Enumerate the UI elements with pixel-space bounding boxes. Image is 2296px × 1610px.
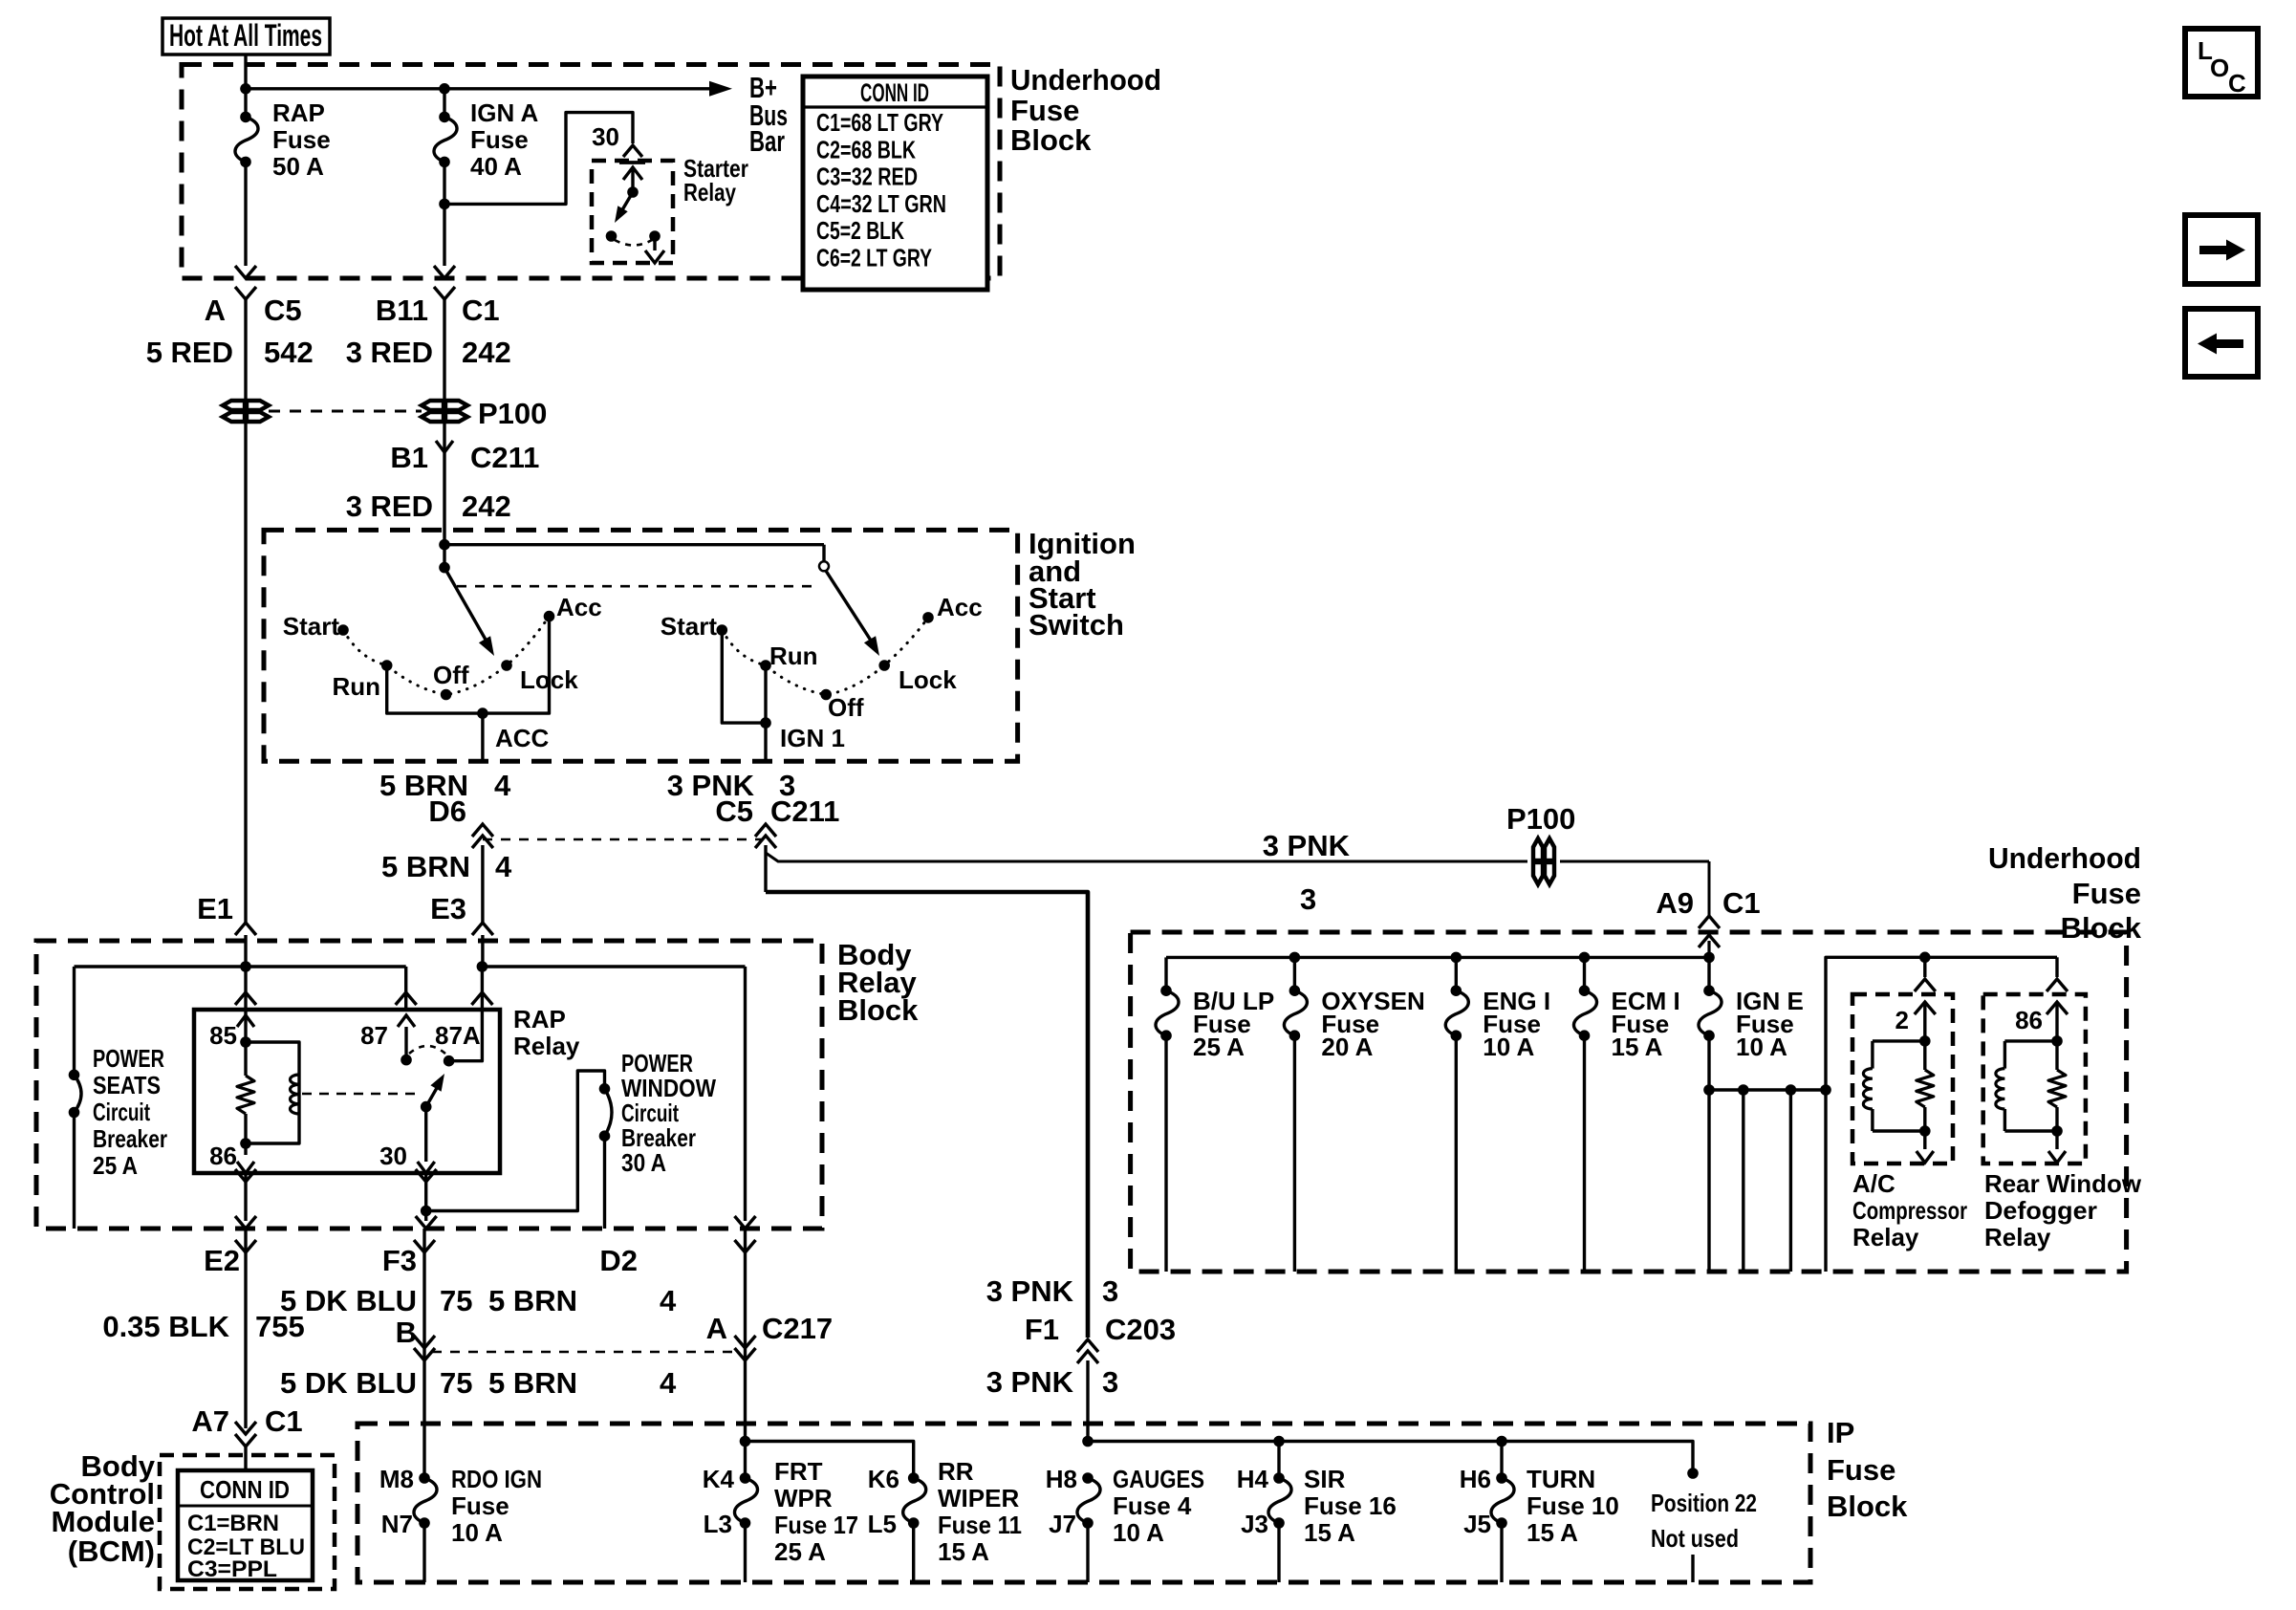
svg-text:C2=68 BLK: C2=68 BLK — [816, 135, 916, 163]
svg-text:SIR: SIR — [1304, 1465, 1346, 1493]
svg-text:C1=BRN: C1=BRN — [187, 1511, 279, 1536]
svg-text:5 DK BLU: 5 DK BLU — [280, 1284, 417, 1317]
svg-text:O: O — [2210, 54, 2229, 82]
svg-text:3 RED: 3 RED — [346, 336, 433, 369]
svg-text:J3: J3 — [1241, 1510, 1268, 1538]
svg-text:25 A: 25 A — [93, 1151, 138, 1180]
svg-text:Fuse 11: Fuse 11 — [938, 1511, 1022, 1539]
svg-text:C: C — [2228, 69, 2246, 98]
svg-text:Fuse: Fuse — [2072, 877, 2141, 910]
svg-text:P100: P100 — [478, 397, 547, 430]
svg-text:15 A: 15 A — [1304, 1518, 1355, 1547]
svg-text:E1: E1 — [197, 892, 233, 925]
svg-text:Fuse 16: Fuse 16 — [1304, 1491, 1397, 1520]
svg-text:Fuse 17: Fuse 17 — [774, 1511, 858, 1539]
svg-text:F3: F3 — [382, 1244, 417, 1277]
svg-text:10 A: 10 A — [1113, 1518, 1164, 1547]
svg-text:Off: Off — [433, 661, 469, 689]
svg-text:C6=2 LT GRY: C6=2 LT GRY — [816, 244, 932, 272]
svg-text:75: 75 — [440, 1284, 472, 1317]
svg-text:B1: B1 — [390, 441, 428, 474]
svg-text:Defogger: Defogger — [1984, 1196, 2097, 1225]
svg-text:542: 542 — [264, 336, 314, 369]
svg-text:Fuse 10: Fuse 10 — [1527, 1491, 1619, 1520]
svg-text:GAUGES: GAUGES — [1113, 1465, 1204, 1493]
svg-text:10 A: 10 A — [1483, 1033, 1534, 1061]
svg-text:C211: C211 — [770, 794, 839, 828]
svg-text:3: 3 — [1102, 1274, 1118, 1308]
svg-text:5 BRN: 5 BRN — [488, 1284, 577, 1317]
svg-text:RAP: RAP — [513, 1005, 566, 1033]
svg-text:20 A: 20 A — [1321, 1033, 1373, 1061]
svg-text:POWER: POWER — [93, 1044, 164, 1073]
svg-text:A9: A9 — [1656, 886, 1694, 920]
svg-text:5 BRN: 5 BRN — [381, 850, 470, 883]
svg-text:3 PNK: 3 PNK — [986, 1274, 1074, 1308]
svg-text:E2: E2 — [204, 1244, 240, 1277]
svg-text:FRT: FRT — [774, 1457, 823, 1486]
svg-text:5 DK BLU: 5 DK BLU — [280, 1366, 417, 1400]
svg-text:C5: C5 — [715, 794, 753, 828]
svg-text:IGN 1: IGN 1 — [780, 724, 845, 752]
svg-text:15 A: 15 A — [1612, 1033, 1663, 1061]
svg-text:Relay: Relay — [513, 1032, 580, 1060]
svg-text:C3=32 RED: C3=32 RED — [816, 163, 918, 191]
svg-text:C5=2 BLK: C5=2 BLK — [816, 216, 904, 245]
svg-text:Position 22: Position 22 — [1651, 1489, 1757, 1517]
svg-text:0.35 BLK: 0.35 BLK — [102, 1310, 229, 1343]
svg-text:Fuse: Fuse — [272, 125, 331, 154]
svg-text:Block: Block — [2061, 911, 2142, 945]
svg-text:C1: C1 — [1722, 886, 1761, 920]
svg-text:87: 87 — [360, 1021, 388, 1050]
svg-text:15 A: 15 A — [938, 1537, 989, 1566]
svg-text:C217: C217 — [762, 1312, 833, 1345]
svg-text:Block: Block — [837, 993, 919, 1027]
svg-text:Block: Block — [1010, 123, 1092, 157]
svg-text:H4: H4 — [1237, 1465, 1269, 1493]
svg-text:A: A — [706, 1312, 727, 1345]
svg-text:87A: 87A — [435, 1021, 481, 1050]
svg-text:CONN ID: CONN ID — [200, 1475, 290, 1504]
svg-text:30: 30 — [592, 122, 619, 151]
svg-text:25 A: 25 A — [1193, 1033, 1245, 1061]
svg-text:(BCM): (BCM) — [68, 1534, 155, 1568]
svg-text:Bar: Bar — [749, 124, 785, 158]
svg-text:10 A: 10 A — [1736, 1033, 1787, 1061]
svg-text:86: 86 — [209, 1142, 237, 1170]
svg-text:SEATS: SEATS — [93, 1071, 161, 1099]
svg-text:IGN A: IGN A — [470, 98, 538, 127]
svg-text:Block: Block — [1827, 1490, 1908, 1523]
svg-text:L3: L3 — [704, 1510, 732, 1538]
svg-text:Start: Start — [661, 612, 718, 641]
svg-text:D2: D2 — [599, 1244, 638, 1277]
svg-text:10 A: 10 A — [451, 1518, 503, 1547]
svg-text:C5: C5 — [264, 294, 302, 327]
svg-text:P100: P100 — [1506, 802, 1575, 836]
svg-text:15 A: 15 A — [1527, 1518, 1578, 1547]
svg-text:D6: D6 — [428, 794, 466, 828]
svg-text:C3=PPL: C3=PPL — [187, 1556, 277, 1582]
svg-text:C1: C1 — [265, 1404, 303, 1438]
svg-text:242: 242 — [462, 336, 511, 369]
svg-text:C4=32 LT GRN: C4=32 LT GRN — [816, 189, 946, 218]
svg-text:J5: J5 — [1463, 1510, 1491, 1538]
svg-text:CONN ID: CONN ID — [860, 78, 929, 107]
svg-text:Fuse 4: Fuse 4 — [1113, 1491, 1192, 1520]
svg-text:3 PNK: 3 PNK — [986, 1365, 1074, 1399]
svg-text:50 A: 50 A — [272, 152, 324, 181]
svg-text:H6: H6 — [1460, 1465, 1491, 1493]
svg-text:K4: K4 — [703, 1465, 735, 1493]
svg-text:Fuse: Fuse — [451, 1491, 509, 1520]
svg-text:C211: C211 — [470, 441, 539, 474]
svg-text:A/C: A/C — [1852, 1169, 1895, 1198]
svg-text:4: 4 — [660, 1284, 677, 1317]
svg-text:C1: C1 — [462, 294, 500, 327]
svg-text:Switch: Switch — [1029, 608, 1124, 642]
svg-text:3: 3 — [1102, 1365, 1118, 1399]
svg-text:RDO IGN: RDO IGN — [451, 1465, 542, 1493]
svg-text:Run: Run — [769, 642, 818, 670]
svg-text:Relay: Relay — [1852, 1223, 1919, 1251]
svg-text:WIPER: WIPER — [938, 1484, 1019, 1512]
svg-text:Module: Module — [52, 1505, 156, 1538]
svg-text:30: 30 — [379, 1142, 407, 1170]
svg-text:ACC: ACC — [495, 724, 550, 752]
svg-text:B: B — [396, 1316, 417, 1349]
svg-text:A: A — [205, 294, 226, 327]
svg-text:IP: IP — [1827, 1416, 1854, 1449]
svg-text:Acc: Acc — [556, 593, 602, 621]
svg-text:Fuse: Fuse — [1827, 1453, 1895, 1487]
svg-text:3 PNK: 3 PNK — [1263, 829, 1351, 862]
svg-text:H8: H8 — [1046, 1465, 1077, 1493]
svg-text:Run: Run — [332, 672, 380, 701]
svg-text:75: 75 — [440, 1366, 472, 1400]
svg-text:L5: L5 — [868, 1510, 897, 1538]
svg-text:RR: RR — [938, 1457, 974, 1486]
svg-text:E3: E3 — [430, 892, 466, 925]
svg-text:30 A: 30 A — [621, 1148, 666, 1177]
svg-text:25 A: 25 A — [774, 1537, 826, 1566]
svg-text:A7: A7 — [191, 1404, 229, 1438]
svg-text:4: 4 — [495, 850, 512, 883]
svg-text:Off: Off — [828, 693, 864, 722]
svg-text:Not used: Not used — [1651, 1524, 1739, 1553]
svg-text:86: 86 — [2015, 1006, 2043, 1034]
svg-text:40 A: 40 A — [470, 152, 522, 181]
svg-text:M8: M8 — [379, 1465, 414, 1493]
svg-text:2: 2 — [1895, 1006, 1909, 1034]
svg-text:B11: B11 — [376, 294, 428, 327]
svg-text:N7: N7 — [381, 1510, 413, 1538]
svg-text:Relay: Relay — [683, 178, 736, 207]
svg-text:5 RED: 5 RED — [146, 336, 233, 369]
svg-text:Acc: Acc — [937, 593, 983, 621]
svg-text:Fuse: Fuse — [1010, 94, 1079, 127]
svg-text:Compressor: Compressor — [1852, 1196, 1967, 1225]
svg-text:Start: Start — [283, 612, 340, 641]
svg-text:242: 242 — [462, 490, 511, 523]
svg-text:3: 3 — [1300, 882, 1316, 916]
svg-text:Fuse: Fuse — [470, 125, 529, 154]
svg-text:Circuit: Circuit — [93, 1098, 150, 1126]
svg-text:F1: F1 — [1025, 1313, 1059, 1346]
svg-text:RAP: RAP — [272, 98, 325, 127]
svg-text:Hot At All Times: Hot At All Times — [169, 18, 322, 53]
svg-text:3 RED: 3 RED — [346, 490, 433, 523]
svg-text:Rear Window: Rear Window — [1984, 1169, 2142, 1198]
svg-text:4: 4 — [660, 1366, 677, 1400]
svg-text:C1=68 LT GRY: C1=68 LT GRY — [816, 108, 943, 137]
svg-text:Underhood: Underhood — [1988, 841, 2141, 875]
svg-text:K6: K6 — [868, 1465, 899, 1493]
svg-text:Underhood: Underhood — [1010, 63, 1161, 97]
svg-text:85: 85 — [209, 1021, 237, 1050]
svg-text:J7: J7 — [1049, 1510, 1076, 1538]
svg-text:5 BRN: 5 BRN — [488, 1366, 577, 1400]
svg-text:C203: C203 — [1105, 1313, 1176, 1346]
svg-text:WPR: WPR — [774, 1484, 833, 1512]
svg-text:Breaker: Breaker — [93, 1124, 167, 1153]
svg-text:Lock: Lock — [899, 665, 957, 694]
svg-text:4: 4 — [494, 769, 511, 802]
svg-text:TURN: TURN — [1527, 1465, 1595, 1493]
svg-text:Relay: Relay — [1984, 1223, 2051, 1251]
